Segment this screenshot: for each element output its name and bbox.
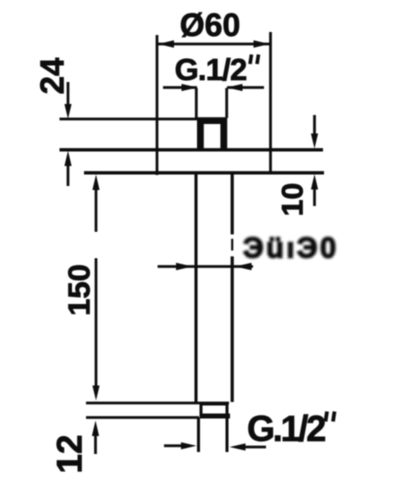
pipe diameter dimension arrows — [158, 263, 253, 270]
thread extension line right — [225, 88, 228, 118]
svg-text:24: 24 — [34, 57, 71, 94]
pipe right wall — [231, 173, 234, 402]
watermark band — [88, 233, 106, 258]
thread extension line left — [195, 88, 198, 118]
svg-text:ЭüıЭ0: ЭüıЭ0 — [243, 233, 339, 265]
bottom nut — [200, 404, 231, 416]
plate bottom line — [84, 171, 324, 174]
ceiling line A — [60, 118, 198, 121]
dimension line 12 — [92, 421, 99, 455]
svg-text:10: 10 — [276, 183, 309, 216]
extension line right of Ø60 — [269, 32, 272, 173]
nut bottom extension line — [86, 416, 199, 419]
plate top line — [60, 148, 324, 151]
svg-text:12: 12 — [50, 435, 89, 474]
dimension line Ø60 — [157, 40, 271, 47]
extension line left of Ø60 — [156, 35, 159, 175]
dimension line 150 — [92, 175, 99, 401]
svg-text:150: 150 — [62, 264, 97, 316]
svg-text:G.1/2: G.1/2 — [247, 408, 325, 449]
bottom nipple left wall — [197, 418, 200, 453]
dimension line 24 — [64, 82, 71, 186]
top tenon square — [200, 121, 223, 150]
inch mark ticks bottom — [326, 412, 335, 422]
nut top extension line — [86, 402, 229, 405]
bottom nipple right wall — [226, 418, 229, 453]
pipe left wall — [194, 173, 197, 402]
dimension line G.1/2 top — [163, 84, 264, 91]
dimension line 10 — [311, 115, 318, 206]
dimension line G.1/2 bottom — [164, 442, 266, 450]
svg-text:G.1/2: G.1/2 — [175, 52, 247, 87]
svg-text:Ø60: Ø60 — [180, 7, 240, 43]
inch mark ticks top — [250, 55, 259, 65]
